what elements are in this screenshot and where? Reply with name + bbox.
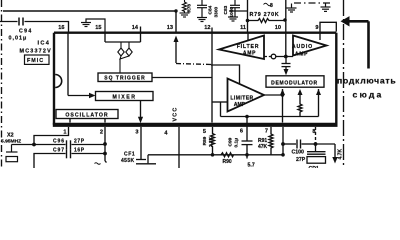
ground near pin 10: [287, 4, 297, 13]
svg-text:R89: R89: [202, 136, 208, 145]
svg-text:5.7: 5.7: [248, 163, 255, 169]
svg-text:12: 12: [204, 25, 210, 31]
MIXER box: [96, 92, 154, 101]
svg-text:27P: 27P: [296, 157, 306, 163]
ceramic discriminator CD1: [307, 144, 326, 163]
pin 2 wire down: [104, 127, 106, 161]
left boundary dash-dot line: [1, 0, 3, 168]
svg-text:OSCILLATOR: OSCILLATOR: [65, 112, 108, 118]
svg-text:4.7K: 4.7K: [338, 149, 344, 160]
resistor R91: [269, 127, 273, 155]
svg-text:455K: 455K: [121, 158, 135, 164]
right boundary dash-dot line: [343, 0, 345, 168]
wire C94 to pin 16: [25, 22, 69, 34]
svg-text:3: 3: [135, 130, 138, 136]
svg-text:47K: 47K: [258, 144, 268, 150]
wire filter to circle: [264, 56, 271, 58]
ground rail bottom: [148, 154, 282, 156]
ground at pin 15: [81, 19, 105, 33]
node pin2 c96: [103, 142, 107, 146]
SQ TRIGGER box: [98, 73, 152, 82]
IC notch: [55, 75, 62, 88]
wire segment to pin 11: [229, 10, 248, 12]
svg-text:14: 14: [132, 25, 139, 31]
capacitor C83: [228, 0, 240, 21]
wire pin 10 vertical: [285, 0, 287, 57]
svg-text:MIXER: MIXER: [113, 94, 137, 100]
svg-text:C94: C94: [19, 29, 33, 35]
pin 7 wire: [282, 127, 284, 155]
svg-text:AUDIO: AUDIO: [292, 44, 313, 50]
crystal X2: [6, 145, 34, 162]
svg-text:5: 5: [203, 129, 206, 135]
svg-text:MC3372V: MC3372V: [20, 49, 52, 55]
svg-text:0.1μ: 0.1μ: [234, 138, 240, 148]
svg-text:27P: 27P: [74, 139, 85, 145]
limiter output: [264, 94, 283, 96]
svg-text:CF1: CF1: [124, 152, 135, 158]
pin 15 internal: [104, 33, 106, 42]
svg-text:1000: 1000: [229, 6, 235, 17]
wire top horizontal to pin 13: [3, 11, 176, 33]
pin 11 internal stub: [247, 33, 249, 41]
capacitor C99 / pin 6 line: [246, 117, 248, 141]
ceramic filter CF1: [136, 155, 156, 164]
pin 12 stub above: [211, 28, 213, 34]
node junction R79 left: [246, 19, 250, 23]
varicap diode pair: [118, 42, 132, 73]
svg-text:FMIC: FMIC: [27, 58, 44, 64]
svg-text:8: 8: [270, 3, 273, 9]
resistor R89: [211, 127, 215, 155]
node dot pin10 audio wire: [284, 55, 288, 59]
svg-text:AMP: AMP: [243, 51, 256, 57]
demod internal resistor: [298, 95, 302, 117]
resistor R90: [221, 153, 234, 157]
pin 1 wire: [34, 127, 69, 145]
svg-text:LIMITER: LIMITER: [230, 96, 253, 102]
internal bottom rail: [221, 116, 319, 118]
wire bracket pins 15-14: [105, 41, 141, 43]
svg-text:X2: X2: [7, 133, 14, 139]
IC bottom edge thick: [53, 123, 338, 127]
pin 12 internal vertical: [211, 33, 213, 123]
pin 8 dashed wire: [315, 127, 317, 144]
pin 14 stub above: [140, 27, 142, 34]
node pin2 c97: [103, 152, 107, 156]
node junction pin 10: [283, 18, 287, 22]
FILTER AMP triangle: [219, 36, 264, 60]
capacitor C96: [34, 144, 66, 146]
pin 9 internal stub: [319, 33, 321, 40]
node junction at pin13 top: [174, 9, 177, 12]
AUDIO AMP triangle: [293, 36, 327, 56]
svg-text:R78: R78: [187, 4, 192, 13]
DEMODULATOR box: [266, 76, 324, 87]
OSCILLATOR box: [56, 110, 118, 119]
svg-text:IC4: IC4: [38, 41, 51, 47]
svg-text:8: 8: [312, 129, 315, 135]
wire pin 9 to connection point: [320, 22, 336, 33]
svg-text:DEMODULATOR: DEMODULATOR: [271, 80, 318, 86]
svg-text:15: 15: [95, 25, 101, 31]
wire circle to cap: [276, 56, 293, 58]
resistor R79: [248, 19, 286, 23]
pin 16 internal wire to mixer: [67, 33, 69, 96]
svg-text:2.2K: 2.2K: [208, 136, 214, 147]
svg-text:R79 270K: R79 270K: [250, 12, 280, 18]
pin 3 wire to CF1: [140, 127, 142, 159]
svg-text:1: 1: [63, 130, 66, 136]
svg-text:7: 7: [265, 129, 268, 135]
small mark: [95, 163, 101, 165]
svg-text:FILTER: FILTER: [237, 44, 260, 50]
node X2 junction: [32, 143, 36, 147]
coupling capacitor to demodulator: [282, 57, 291, 72]
svg-text:0,01μ: 0,01μ: [9, 36, 28, 42]
svg-text:2: 2: [100, 130, 103, 136]
svg-text:16: 16: [58, 25, 64, 31]
dash-dot border top right: [294, 2, 333, 4]
label FM IC boxed: [25, 55, 50, 64]
terminal circle: [271, 54, 276, 59]
SQ trigger output wire: [152, 77, 212, 79]
svg-text:3300: 3300: [214, 6, 220, 17]
ground top right: [321, 4, 331, 12]
svg-text:C100: C100: [292, 150, 305, 156]
svg-text:9: 9: [315, 25, 318, 31]
pin 13 internal arrow up: [174, 36, 179, 43]
oscillator pin stubs: [69, 119, 71, 123]
svg-text:сюда: сюда: [353, 90, 384, 100]
dash-dot link from pin13: [176, 64, 211, 65]
pin 4 wire: [178, 127, 180, 168]
arrow connect here: [349, 21, 369, 68]
wire pin 11 vertical from top: [247, 0, 249, 33]
svg-text:подключать: подключать: [337, 76, 396, 86]
pin 14 internal: [140, 33, 142, 42]
annotation marks: [264, 3, 272, 6]
svg-text:CD1: CD1: [309, 166, 319, 168]
svg-text:R90: R90: [223, 159, 232, 165]
capacitor C100: [283, 143, 296, 145]
mixer output down arrow to pin 3: [140, 101, 142, 118]
resistor R78: [180, 0, 190, 17]
svg-text:C97: C97: [53, 148, 65, 154]
svg-text:16P: 16P: [74, 148, 85, 154]
node on internal rail: [245, 115, 249, 119]
capacitor C84: [197, 0, 207, 22]
capacitor C94: [19, 18, 23, 26]
svg-text:AMP: AMP: [295, 51, 308, 57]
svg-text:13: 13: [167, 25, 173, 31]
svg-text:C83: C83: [223, 5, 229, 14]
demod right line with arrow: [318, 89, 320, 117]
svg-text:C84: C84: [208, 5, 214, 14]
svg-text:10: 10: [275, 25, 281, 31]
svg-text:AMP: AMP: [234, 102, 246, 108]
demod pin7 line with arrow: [282, 89, 284, 123]
svg-text:C96: C96: [53, 139, 65, 145]
wire C94 input: [0, 21, 18, 23]
svg-text:SQ TRIGGER: SQ TRIGGER: [104, 76, 145, 82]
node rail end: [281, 153, 285, 157]
svg-text:5.95MHZ: 5.95MHZ: [1, 139, 21, 145]
svg-text:VCC: VCC: [173, 107, 179, 122]
limiter input wire: [212, 101, 228, 103]
svg-text:C99: C99: [228, 137, 234, 146]
svg-text:11: 11: [240, 25, 246, 31]
IC4 box outline: [54, 33, 336, 125]
LIMITER AMP triangle: [228, 79, 265, 112]
limiter feedback: [220, 102, 222, 117]
capacitor C97: [34, 154, 66, 169]
resistor 4.7K wire with arrow: [316, 143, 336, 145]
svg-text:6: 6: [240, 129, 243, 135]
wire to limiter top: [211, 65, 240, 84]
